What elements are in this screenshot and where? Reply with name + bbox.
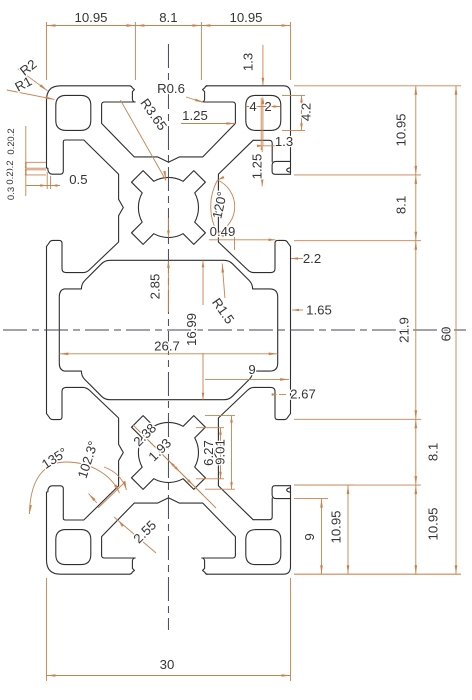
2.55 leader xyxy=(114,517,156,553)
top-right web lower edge xyxy=(219,140,254,174)
30 dim line xyxy=(47,675,291,677)
bottom slot left lip and cavity wall xyxy=(102,498,169,575)
svg-text:0.2: 0.2 xyxy=(5,171,16,184)
1.25 right arrow xyxy=(261,179,264,186)
svg-text:9.01: 9.01 xyxy=(213,439,228,465)
1.3 arrow l xyxy=(257,145,263,148)
right mid piece upper pocket and chamfer edge xyxy=(254,240,291,272)
2.67 arrow l xyxy=(272,393,278,396)
1.93 tick b xyxy=(187,479,193,485)
bottom-right face segment to opening xyxy=(290,486,292,499)
10.95 bottom arrow up xyxy=(347,485,350,494)
svg-text:2.85: 2.85 xyxy=(148,274,163,300)
top dim arrow xyxy=(282,24,291,27)
R3.65 leader xyxy=(121,100,167,180)
135 arrow a xyxy=(29,505,32,514)
bottom-right face slot mushroom hook xyxy=(272,486,290,499)
top-right face saw notch xyxy=(287,168,291,172)
svg-text:1.3: 1.3 xyxy=(275,134,293,149)
30 dim extension left xyxy=(46,578,48,681)
svg-text:21.9: 21.9 xyxy=(397,317,412,343)
1.25 right dim line a xyxy=(261,146,263,152)
upper core right face with V-notch and web edge to mid pocket xyxy=(214,174,254,272)
2.2 arrow xyxy=(291,257,298,260)
left dims ref line xyxy=(26,169,46,171)
X-shaped core hole, lower core xyxy=(132,416,206,490)
svg-text:10.95: 10.95 xyxy=(74,10,107,25)
left dims arrow b xyxy=(25,163,27,169)
120 arrow a xyxy=(218,176,225,180)
6.27 arrow t xyxy=(219,428,222,435)
9.01 arrow t xyxy=(230,416,233,423)
svg-text:10.95: 10.95 xyxy=(394,113,409,146)
top dim arrow xyxy=(126,24,135,27)
profile bottom face right segment xyxy=(206,499,290,574)
svg-text:R0.6: R0.6 xyxy=(157,81,185,96)
2.55 tick xyxy=(119,522,124,527)
6.27 ext b xyxy=(196,478,224,480)
bottom-right web lower edge xyxy=(219,486,254,520)
svg-text:2.2: 2.2 xyxy=(303,251,321,266)
top-left face and slot lip shelf xyxy=(47,104,66,174)
2.55 ext line xyxy=(98,483,124,508)
left mid piece face and plain slot edges with chamfers xyxy=(47,240,84,272)
4.2 dim vert xyxy=(260,98,262,150)
4.2 arrow l xyxy=(246,105,253,108)
svg-text:1.65: 1.65 xyxy=(306,303,332,318)
1.3 top extension xyxy=(262,45,264,85)
2.38 tick b xyxy=(174,466,180,472)
1.25 right dim line b xyxy=(261,181,263,186)
top slot right lip and cavity wall xyxy=(168,86,235,163)
6.27 dim xyxy=(220,428,222,479)
top dim line xyxy=(47,25,291,27)
6.27 arrow b xyxy=(219,472,222,479)
top-right face slot mushroom hook xyxy=(272,161,290,174)
R2 arrow xyxy=(40,84,48,91)
top dim arrow xyxy=(135,24,144,27)
1.3 top arrow up xyxy=(262,96,265,104)
1.25 top arrow xyxy=(226,122,235,125)
16.99 dim line a xyxy=(202,260,204,305)
0.5 ref vert xyxy=(46,172,48,189)
9 right arrow xyxy=(280,378,289,381)
1.3 arrow r xyxy=(272,145,278,148)
X-shaped core hole, upper core xyxy=(132,171,206,245)
svg-text:1.25: 1.25 xyxy=(182,108,208,123)
0.49 dim line xyxy=(209,239,276,241)
4.2 arrow r xyxy=(273,105,280,108)
10.95 inner dim line xyxy=(347,485,349,574)
right stack arrow xyxy=(415,565,418,574)
9 bottom arrow dn xyxy=(320,565,323,574)
right stack extension xyxy=(294,240,421,242)
26.7 arrow l xyxy=(59,353,68,356)
top-left corner piece inner face and web edge xyxy=(66,140,119,174)
4.2 r arrow t xyxy=(300,95,303,102)
bottom-right face saw notch xyxy=(287,488,291,492)
top slot left lip and cavity wall xyxy=(102,86,169,163)
4.2 dim line right xyxy=(301,95,303,130)
right stack arrow xyxy=(415,241,418,250)
6.27 ext a xyxy=(196,427,224,429)
left mid piece face outer xyxy=(46,246,48,413)
2.2 leader xyxy=(291,258,303,260)
2.85 arrow a xyxy=(167,231,170,238)
bottom-left face and slot lip shelf xyxy=(47,486,66,556)
60 dim arrow bottom xyxy=(455,565,458,574)
9.01 arrow b xyxy=(230,482,233,489)
svg-text:10.95: 10.95 xyxy=(229,10,262,25)
svg-text:2: 2 xyxy=(264,99,271,114)
bottom-left corner piece inner face and web edge xyxy=(66,486,119,520)
top dim extension slot-left xyxy=(134,22,136,80)
bottom slot right lip and cavity wall xyxy=(168,498,235,575)
16.99 dim line b xyxy=(202,353,204,400)
left mid piece lower pocket xyxy=(47,387,84,419)
right stack arrow xyxy=(415,410,418,419)
svg-text:60: 60 xyxy=(439,327,454,342)
right mid piece face outer xyxy=(290,246,292,413)
left dims arrow d xyxy=(25,169,27,175)
2.85 arrow b xyxy=(167,261,170,268)
corner hole bottom-left (4.2 square) xyxy=(56,530,91,565)
120deg arc left xyxy=(211,180,218,233)
svg-text:26.7: 26.7 xyxy=(154,339,180,354)
0.5 arrow l xyxy=(40,184,47,187)
top dim arrow xyxy=(201,24,210,27)
vertical centreline xyxy=(167,44,169,630)
4.2 dim horiz xyxy=(246,106,281,108)
svg-text:4: 4 xyxy=(249,99,256,114)
top dim extension left xyxy=(46,22,48,80)
1.3 dim line xyxy=(263,145,280,147)
right stack dim line xyxy=(415,86,417,574)
profile outer corner top-left (R2) xyxy=(47,86,130,104)
0.5 dim line xyxy=(26,185,60,187)
120deg arc right xyxy=(218,180,235,233)
right stack extension xyxy=(294,174,421,176)
1.93 leader line xyxy=(146,438,216,508)
corner hole top-left (4.2 square) xyxy=(56,95,91,130)
top dim extension right xyxy=(290,22,292,80)
30 dim extension right xyxy=(290,578,292,681)
R1.5 leader xyxy=(222,264,225,299)
left dims arrow c xyxy=(25,170,27,176)
profile top face right segment xyxy=(206,86,290,161)
2.85 ref b xyxy=(167,261,169,312)
9 right dim line xyxy=(205,378,289,380)
left dims ref line xyxy=(26,174,46,176)
9.01 ext a xyxy=(205,415,235,417)
9 bottom ext xyxy=(294,498,328,500)
upper core left face with V-notch and web edge to mid pocket xyxy=(83,174,123,272)
top-right corner piece inner face xyxy=(253,140,272,162)
svg-text:8.1: 8.1 xyxy=(159,10,177,25)
102.3 arrow a tail xyxy=(89,494,98,504)
30 dim arrow left xyxy=(47,674,56,677)
svg-text:0.2: 0.2 xyxy=(6,128,17,141)
1.3 ext vertical through hole xyxy=(262,99,264,147)
right stack arrow xyxy=(415,166,418,175)
102.3deg arc xyxy=(104,467,127,490)
135 arrow b xyxy=(114,484,119,493)
1.93 tick a xyxy=(169,461,175,467)
R2 leader xyxy=(18,69,48,91)
svg-text:0.5: 0.5 xyxy=(69,172,87,187)
2.38 tick a xyxy=(156,448,162,454)
135deg arc xyxy=(30,462,120,514)
right stack arrow xyxy=(415,485,418,494)
bottom face ext right xyxy=(294,573,461,575)
0.49 arrow xyxy=(269,239,276,242)
30 dim arrow right xyxy=(282,674,291,677)
top dim arrow xyxy=(192,24,201,27)
1.65 leader xyxy=(292,309,303,311)
top-right face segment to opening xyxy=(290,161,292,174)
R1.5 arrow xyxy=(222,264,225,273)
horizontal centreline xyxy=(3,329,466,331)
0.5 arrow r xyxy=(51,184,58,187)
svg-text:0.3: 0.3 xyxy=(6,187,17,200)
central cavity outline xyxy=(59,260,277,399)
right stack extension xyxy=(294,573,461,575)
9.01 dim xyxy=(231,416,233,490)
left dims ref line xyxy=(26,161,46,163)
R3.65 arrow xyxy=(163,171,166,180)
120 arrow b xyxy=(218,233,225,237)
right stack arrow xyxy=(415,86,418,95)
svg-text:10.95: 10.95 xyxy=(426,507,441,540)
1.25 top dim line xyxy=(181,123,235,125)
svg-text:0.2: 0.2 xyxy=(6,141,17,154)
left dims ref line xyxy=(26,167,46,169)
right stack arrow xyxy=(415,232,418,241)
R1 leader xyxy=(7,90,55,99)
9.01 ext b xyxy=(205,488,235,490)
left dims arrow a xyxy=(25,162,27,168)
svg-text:9: 9 xyxy=(248,362,255,377)
right stack arrow xyxy=(415,175,418,184)
2.67 arrow r xyxy=(291,393,297,396)
svg-text:30: 30 xyxy=(160,657,175,672)
profile outer corner bottom-left (R2) xyxy=(47,556,130,574)
right stack extension xyxy=(294,418,421,420)
svg-text:8.1: 8.1 xyxy=(426,443,441,461)
26.7 dim line xyxy=(59,353,277,355)
2.38 leader line xyxy=(133,425,203,495)
102.3 arrow b xyxy=(123,481,127,490)
R0.6 leader xyxy=(186,97,204,103)
0.49 ref vert xyxy=(234,237,236,250)
102.3 arrow a xyxy=(89,494,96,502)
corner hole top-right (4.2 square) xyxy=(246,95,281,130)
svg-text:16.99: 16.99 xyxy=(184,313,199,346)
10.95 bottom ext xyxy=(294,484,355,486)
bottom-right corner piece inner face xyxy=(253,498,272,520)
60 dim arrow top xyxy=(455,86,458,95)
right stack extension xyxy=(294,85,461,87)
svg-text:4.2: 4.2 xyxy=(299,103,314,121)
svg-text:0.49: 0.49 xyxy=(210,224,236,239)
lower core right face with V-notch and web edge to mid pocket xyxy=(214,387,254,485)
4.2 ext b xyxy=(282,129,305,131)
60 dim line xyxy=(455,86,457,574)
2.67 leader xyxy=(279,394,286,396)
lower core left face with V-notch and web edge to mid pocket xyxy=(83,387,123,485)
right stack arrow xyxy=(415,476,418,485)
2.85 ref a xyxy=(167,218,169,238)
svg-text:8.1: 8.1 xyxy=(394,196,409,214)
1.65 arrow xyxy=(292,309,299,312)
svg-text:1.3: 1.3 xyxy=(241,53,256,71)
top dim arrow xyxy=(47,24,56,27)
1.3 top arrow xyxy=(262,78,265,86)
9 bottom dim line xyxy=(321,499,323,575)
R1 arrow xyxy=(45,96,54,99)
16.99 arrow b xyxy=(202,393,205,400)
0.5 ref vert2 xyxy=(50,176,52,189)
10.95 bottom arrow dn xyxy=(347,565,350,574)
left dims dim line xyxy=(25,126,27,196)
corner hole bottom-right (4.2 square) xyxy=(246,530,281,565)
9 bottom arrow up xyxy=(320,499,323,508)
svg-text:9: 9 xyxy=(302,533,317,540)
svg-text:1.25: 1.25 xyxy=(250,154,265,180)
26.7 arrow r xyxy=(269,353,278,356)
right stack extension xyxy=(294,484,421,486)
svg-text:2.67: 2.67 xyxy=(290,387,316,402)
right stack arrow xyxy=(415,419,418,428)
4.2 r arrow b xyxy=(300,123,303,130)
4.2 ext a xyxy=(282,94,305,96)
svg-text:10.95: 10.95 xyxy=(329,510,344,543)
top dim extension slot-right xyxy=(200,22,202,80)
right mid piece lower pocket xyxy=(254,387,291,419)
16.99 arrow t xyxy=(202,260,205,267)
R0.6 arrow xyxy=(195,99,204,103)
